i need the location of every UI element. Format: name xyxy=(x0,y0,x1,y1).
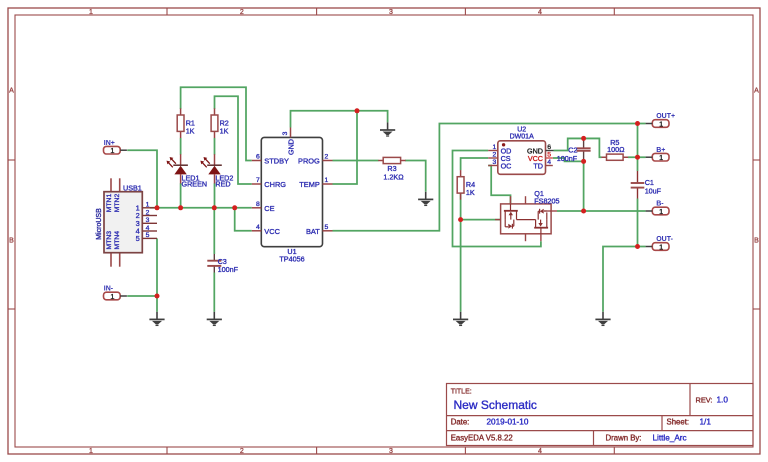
node C2 top junction xyxy=(581,136,586,141)
svg-text:Little_Arc: Little_Arc xyxy=(653,433,687,442)
svg-text:USB1: USB1 xyxy=(123,183,142,192)
svg-text:BAT: BAT xyxy=(306,227,320,236)
svg-text:U2: U2 xyxy=(517,126,526,133)
wire LED2 bottom xyxy=(214,183,216,208)
node C2 bottom junction xyxy=(581,159,586,164)
svg-text:1.0: 1.0 xyxy=(717,395,729,404)
REV label xyxy=(696,395,729,404)
svg-text:MTN1: MTN1 xyxy=(106,194,113,213)
EasyEDA version xyxy=(451,433,513,442)
wire C2 top junction span xyxy=(568,137,600,139)
svg-text:3: 3 xyxy=(389,448,393,455)
svg-text:1: 1 xyxy=(659,153,663,162)
svg-text:OUT-: OUT- xyxy=(656,236,673,243)
svg-text:5: 5 xyxy=(146,232,150,239)
connector IN- xyxy=(104,286,127,301)
svg-text:5: 5 xyxy=(136,234,140,243)
svg-text:3: 3 xyxy=(146,217,150,224)
Drawn By xyxy=(606,433,687,442)
svg-text:10uF: 10uF xyxy=(645,187,662,196)
svg-text:6: 6 xyxy=(547,144,551,151)
svg-text:1: 1 xyxy=(146,202,150,209)
resistor R4 1K xyxy=(457,170,475,200)
title text New Schematic xyxy=(454,398,537,412)
wire CS to R4 xyxy=(461,158,489,170)
svg-text:STDBY: STDBY xyxy=(264,157,289,166)
ground (IN-) xyxy=(149,312,164,326)
node R4 bottom junction xyxy=(458,217,463,222)
svg-text:VCC: VCC xyxy=(264,227,280,236)
wire TEMP to GND rail xyxy=(333,111,358,184)
title block TITLE label xyxy=(451,388,472,395)
wire OC to Q1 gate xyxy=(488,166,510,204)
ground (OUT-) xyxy=(595,312,610,326)
svg-text:1: 1 xyxy=(110,146,114,155)
svg-text:OUT+: OUT+ xyxy=(656,113,675,120)
protection IC U2 DW01A xyxy=(488,126,553,174)
wire C3 bottom to ground xyxy=(213,273,215,312)
node VCC row junctions xyxy=(155,205,238,210)
connector B- xyxy=(646,201,669,216)
ground (C3) xyxy=(207,312,222,326)
USB connector USB1 MicroUSB xyxy=(96,178,157,266)
svg-text:2019-01-10: 2019-01-10 xyxy=(487,418,529,427)
wire R1 top to STDBY xyxy=(181,87,252,160)
svg-text:A: A xyxy=(9,88,14,95)
svg-text:DW01A: DW01A xyxy=(510,133,534,140)
LED1 GREEN xyxy=(167,154,208,188)
node IN- junction xyxy=(155,294,160,299)
svg-text:Date:: Date: xyxy=(451,418,470,427)
resistor R5 100 xyxy=(602,138,629,160)
svg-text:B: B xyxy=(754,238,759,245)
ground (R3) xyxy=(418,192,433,206)
wire R3 to ground xyxy=(405,161,426,192)
resistor R3 1.2K xyxy=(378,157,405,181)
svg-text:B: B xyxy=(9,238,14,245)
svg-text:GREEN: GREEN xyxy=(182,180,208,189)
svg-text:100nF: 100nF xyxy=(557,154,578,163)
wire OD net xyxy=(453,151,541,247)
svg-text:1: 1 xyxy=(89,448,93,455)
svg-text:1: 1 xyxy=(110,292,114,301)
wire OUT- row and ground branch xyxy=(603,247,646,312)
dual MOSFET Q1 FS8205 xyxy=(495,189,559,241)
connector IN+ xyxy=(104,140,127,155)
svg-text:1: 1 xyxy=(659,207,663,216)
svg-text:B+: B+ xyxy=(656,147,665,154)
svg-text:New Schematic: New Schematic xyxy=(454,398,537,412)
wire R2 top to CHRG xyxy=(215,96,252,184)
svg-text:4: 4 xyxy=(146,225,150,232)
svg-text:6: 6 xyxy=(256,154,260,161)
node TEMP/GND rail junction xyxy=(355,108,360,113)
wire U2 GND pin to C2 top and R5 xyxy=(554,138,602,157)
svg-text:2: 2 xyxy=(240,9,244,16)
ground (U1 GND rail) xyxy=(380,122,395,136)
wire U2 VCC pin to C2 bottom xyxy=(553,158,584,161)
svg-text:FS8205: FS8205 xyxy=(534,196,559,205)
svg-text:2: 2 xyxy=(146,209,150,216)
capacitor C2 100nF xyxy=(557,138,591,162)
connector OUT+ xyxy=(646,113,675,128)
svg-text:Sheet:: Sheet: xyxy=(667,418,690,427)
svg-text:A: A xyxy=(754,88,759,95)
svg-text:1: 1 xyxy=(493,144,497,151)
svg-text:MTN2: MTN2 xyxy=(114,194,121,213)
ground (R4/CS) xyxy=(453,312,468,326)
svg-text:4: 4 xyxy=(256,224,260,231)
connector OUT- xyxy=(646,236,674,251)
svg-text:RED: RED xyxy=(215,180,230,189)
svg-text:PROG: PROG xyxy=(298,157,320,166)
LED2 RED xyxy=(200,154,233,188)
wire CE-VCC branch xyxy=(235,208,252,231)
capacitor C3 100nF xyxy=(207,254,238,274)
svg-text:TD: TD xyxy=(533,161,543,170)
svg-text:1K: 1K xyxy=(466,188,475,197)
svg-text:2: 2 xyxy=(493,152,497,159)
wire R2-LED2 xyxy=(214,138,216,155)
svg-text:MicroUSB: MicroUSB xyxy=(96,208,103,240)
svg-text:CE: CE xyxy=(264,204,274,213)
svg-text:TP4056: TP4056 xyxy=(279,254,304,263)
svg-text:1K: 1K xyxy=(186,126,195,135)
resistor R2 1K xyxy=(211,108,229,138)
wire BAT to OUT+ rail xyxy=(333,124,646,231)
svg-text:3: 3 xyxy=(389,9,393,16)
svg-text:8: 8 xyxy=(256,201,260,208)
title block grid xyxy=(447,384,754,446)
wire R4 bottom to Q1 and ground xyxy=(461,193,501,312)
svg-text:3: 3 xyxy=(493,159,497,166)
svg-text:B-: B- xyxy=(656,201,664,208)
svg-text:5: 5 xyxy=(547,152,551,159)
node OUT+ junction xyxy=(635,121,640,126)
svg-text:3: 3 xyxy=(282,131,289,135)
connector B+ xyxy=(646,147,669,162)
wire C3 top xyxy=(213,208,215,254)
wire U1 GND rail xyxy=(291,111,388,128)
svg-text:Drawn By:: Drawn By: xyxy=(606,433,642,442)
svg-text:1: 1 xyxy=(89,9,93,16)
wire Q1 right pin to B- xyxy=(557,210,646,212)
wire PROG to R3 xyxy=(333,160,379,162)
svg-text:7: 7 xyxy=(256,177,260,184)
svg-text:MTN4: MTN4 xyxy=(114,231,121,250)
svg-text:4: 4 xyxy=(538,448,542,455)
svg-text:1: 1 xyxy=(659,119,663,128)
svg-text:GND: GND xyxy=(287,139,296,155)
wire R1-LED1 xyxy=(180,138,182,155)
capacitor C1 10uF xyxy=(631,171,662,199)
svg-text:4: 4 xyxy=(538,9,542,16)
svg-text:5: 5 xyxy=(325,224,329,231)
wire R5 to B+ rail xyxy=(628,156,646,158)
svg-text:EasyEDA V5.8.22: EasyEDA V5.8.22 xyxy=(451,433,513,442)
wire B+ to C1 xyxy=(637,157,639,171)
wire VCC row (USB pin1 to CE) xyxy=(150,207,252,209)
svg-text:1: 1 xyxy=(659,242,663,251)
Sheet row xyxy=(667,418,712,427)
svg-text:TEMP: TEMP xyxy=(299,180,320,189)
svg-text:1.2KΩ: 1.2KΩ xyxy=(383,173,404,182)
resistor R1 1K xyxy=(177,108,195,138)
svg-text:CHRG: CHRG xyxy=(264,180,286,189)
svg-text:2: 2 xyxy=(325,154,329,161)
svg-text:1: 1 xyxy=(325,177,329,184)
svg-text:1/1: 1/1 xyxy=(700,418,712,427)
wire OUT+ to B+ rail segment xyxy=(637,124,639,158)
svg-text:4: 4 xyxy=(547,159,551,166)
svg-text:OC: OC xyxy=(501,161,512,170)
node OUT- junction xyxy=(635,244,640,249)
svg-text:MTN3: MTN3 xyxy=(106,231,113,250)
node B+ junction xyxy=(635,155,640,160)
svg-text:REV:: REV: xyxy=(696,395,713,404)
node B- row junction xyxy=(581,209,586,214)
wire IN+ to VCC row xyxy=(127,150,157,208)
wire C2 bottom to B- row xyxy=(583,161,585,211)
wire C1 bottom to OUT- junction xyxy=(637,199,639,247)
wire LED1 bottom xyxy=(180,183,182,208)
svg-text:100nF: 100nF xyxy=(218,265,239,274)
svg-text:1K: 1K xyxy=(220,126,229,135)
svg-text:100Ω: 100Ω xyxy=(607,145,625,154)
wire USB pin5 to IN- and ground xyxy=(156,238,158,311)
svg-text:IN+: IN+ xyxy=(104,140,115,147)
op-amp U1 TP4056 xyxy=(252,128,333,264)
wire IN- stub xyxy=(127,295,157,297)
svg-text:TITLE:: TITLE: xyxy=(451,388,472,395)
svg-text:IN-: IN- xyxy=(104,286,114,293)
Date row xyxy=(451,418,529,427)
svg-text:2: 2 xyxy=(240,448,244,455)
